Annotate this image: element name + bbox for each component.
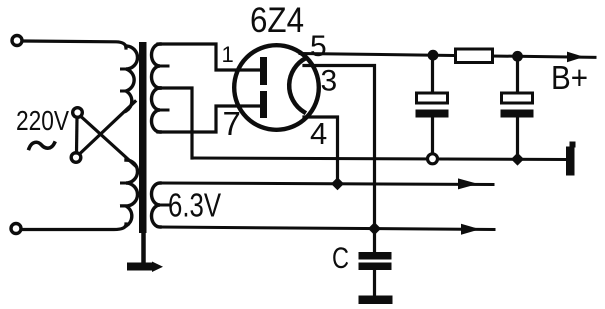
ground chassis bar right [566,147,575,176]
capacitor C [359,229,392,296]
svg-text:5: 5 [310,30,327,63]
capacitor C1 [416,55,449,159]
wire HV center tap to ground bus [158,88,192,158]
arrow F2 [461,224,480,235]
wire pin3 down to node C [304,66,375,229]
ground chassis bar under core [127,262,163,273]
tube V1 anode plate upper pin1 [260,57,267,85]
transformer T1 HV secondary lower section [152,88,161,132]
label AC tilde [29,142,55,148]
resistor R1 [456,49,493,63]
transformer T1 primary winding upper section [126,46,138,111]
wire HV bottom lead to tube pin 7 [158,106,262,132]
capacitor C2 [501,56,534,159]
arrow F1 [458,178,478,189]
wire filament lead F1 [160,183,493,185]
wire filament lead F2 [160,227,494,230]
svg-text:B+: B+ [551,59,588,96]
ground bar under C [359,296,393,305]
wire J1 to primary top [23,41,126,48]
svg-text:7: 7 [223,105,241,142]
wire J2 to primary bottom [22,224,126,230]
transformer T1 HV secondary upper section [152,44,161,88]
junction node at R1 left [428,50,439,61]
wire HV top lead to tube pin 1 [158,44,262,70]
arrow B+ [567,52,584,63]
svg-text:C: C [332,242,349,275]
terminal J2 AC input bottom [11,224,21,234]
svg-text:6Z4: 6Z4 [250,1,304,40]
switch S1 voltage selector [71,102,135,166]
wire pin4 down to F1 [304,117,338,184]
transformer T1 filament winding 6.3V [152,183,161,227]
svg-text:1: 1 [222,42,234,67]
tube V1 anode plate lower pin7 [260,91,267,118]
junction C2 ground [511,153,524,166]
svg-text:3: 3 [321,65,338,98]
junction C1 ground open [428,154,438,164]
junction pin3 F2 C [368,222,381,235]
tube V1 cathode arc [289,58,306,112]
svg-text:4: 4 [310,116,327,151]
wire pin5 B+ bus [300,54,595,58]
junction node at R1 right [512,51,523,62]
junction pin4 F1 [331,177,344,190]
svg-text:6.3V: 6.3V [168,187,221,224]
wire ground bus [192,158,566,160]
terminal J1 AC input top [12,36,22,46]
transformer core [139,42,147,233]
rectifier tube V1 6Z4 envelope [234,45,319,130]
svg-text:220V: 220V [16,105,69,136]
transformer T1 primary winding lower section [126,160,138,226]
